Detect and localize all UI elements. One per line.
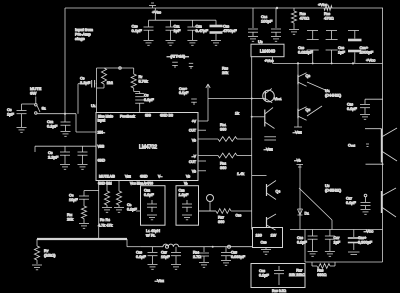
capacitor C7	[78, 146, 88, 164]
svg-text:4.7k 47k: 4.7k 47k	[98, 224, 112, 228]
svg-text:C26: C26	[136, 251, 142, 255]
capacitor C40	[191, 99, 197, 105]
label R3 R4	[98, 218, 112, 228]
wire feedback top	[97, 67, 134, 70]
label C25	[231, 251, 246, 259]
wire input line	[37, 114, 97, 132]
ground R down	[32, 265, 42, 270]
capacitor C6	[60, 146, 70, 164]
wire VBB line	[35, 146, 96, 152]
ground C10	[144, 41, 154, 46]
svg-text:(10kΩ): (10kΩ)	[44, 253, 56, 257]
label Cf	[144, 94, 154, 102]
label C18	[358, 236, 373, 244]
label U1 LM4702	[139, 145, 157, 151]
label U5 D45H8	[325, 184, 342, 192]
capacitor Cb small	[189, 63, 193, 69]
capacitor C26	[148, 247, 158, 264]
wire Q5 diagonal	[307, 106, 322, 116]
svg-text:–VCC: –VCC	[364, 229, 374, 234]
resistor R4	[116, 181, 121, 208]
wire C8 to switch	[22, 103, 35, 105]
capacitor C mute	[79, 196, 89, 206]
svg-text:VCC Bias A=700: VCC Bias A=700	[130, 182, 153, 186]
svg-text:C18+: C18+	[358, 236, 367, 240]
svg-text:1W: 1W	[271, 234, 277, 238]
box C22	[141, 186, 166, 226]
svg-text:360: 360	[218, 220, 224, 224]
svg-text:Vb: Vb	[184, 182, 188, 186]
capacitor C19	[307, 31, 319, 64]
svg-text:0.033µF: 0.033µF	[231, 255, 246, 259]
ground R24	[199, 263, 209, 268]
svg-text:1k2: 1k2	[107, 81, 113, 85]
svg-text:RM: RM	[67, 213, 73, 217]
svg-text:2.2µF: 2.2µF	[48, 155, 59, 160]
capacitor Ca small	[172, 62, 178, 68]
capacitor C18 electrolytic	[348, 230, 360, 255]
svg-text:U3: U3	[258, 39, 263, 44]
label -Vee under Q5	[293, 119, 302, 135]
resistor R mute	[81, 206, 86, 223]
resistor R 360 bottom	[198, 209, 252, 214]
resistor Rf2	[131, 68, 136, 92]
svg-text:1µF: 1µF	[338, 50, 346, 55]
label S1	[42, 106, 47, 111]
svg-text:0.1µF: 0.1µF	[259, 273, 269, 277]
svg-text:SIG: SIG	[145, 114, 151, 118]
box -Vee decouple	[290, 230, 383, 263]
label Rf2	[139, 75, 148, 83]
capacitor C8	[17, 104, 27, 127]
wire bias lower vertical	[299, 164, 301, 229]
node output jacks	[166, 245, 231, 248]
svg-text:(D45H11): (D45H11)	[325, 188, 342, 192]
svg-text:1k: 1k	[235, 112, 239, 116]
ground C8	[17, 128, 27, 133]
svg-text:0.1µF: 0.1µF	[144, 193, 154, 197]
label -Vcc box	[364, 229, 374, 234]
capacitor C11	[166, 20, 176, 40]
svg-text:0.1µF: 0.1µF	[132, 28, 143, 33]
svg-text:0.022µF: 0.022µF	[298, 50, 313, 55]
resistor R24	[199, 247, 209, 262]
svg-text:C28: C28	[259, 269, 265, 273]
svg-text:C5: C5	[144, 94, 149, 98]
label C14 C15 100pF	[261, 14, 273, 24]
svg-text:360: 360	[220, 166, 226, 170]
label Q7	[276, 190, 281, 194]
resistor R20 series	[324, 6, 332, 11]
transistor Q6	[265, 108, 275, 129]
svg-text:2.2pF: 2.2pF	[80, 80, 91, 85]
regulator U3 label	[258, 39, 263, 44]
transistor Q5	[298, 107, 307, 121]
svg-text:Cb: Cb	[127, 203, 132, 207]
svg-text:C23: C23	[179, 189, 185, 193]
svg-text:Q4: Q4	[276, 190, 281, 194]
svg-text:+VCC: +VCC	[265, 59, 275, 63]
wire Q3 emitter diagonal	[307, 82, 330, 92]
ground C11	[166, 41, 176, 46]
label C12a	[196, 24, 209, 34]
label R27	[296, 269, 305, 277]
label D1	[305, 212, 310, 216]
label L1	[146, 229, 160, 237]
ground R4	[114, 208, 124, 213]
svg-text:R25 0.5Ω: R25 0.5Ω	[272, 289, 286, 293]
label R24	[193, 251, 201, 259]
label C30	[297, 236, 307, 244]
svg-text:10µF: 10µF	[161, 255, 170, 259]
wire Q1 feed	[365, 128, 382, 130]
svg-text:C4: C4	[69, 194, 74, 198]
svg-text:Rb1: Rb1	[220, 123, 226, 127]
svg-text:2.7Ω: 2.7Ω	[193, 255, 201, 259]
ground C6	[60, 165, 70, 170]
svg-text:1µF: 1µF	[174, 28, 182, 33]
svg-text:SW: SW	[30, 91, 37, 96]
capacitor C bias	[127, 203, 141, 211]
capacitor C28	[259, 266, 284, 285]
label Rb1	[220, 123, 226, 131]
label C6	[48, 150, 59, 160]
capacitor C15	[271, 8, 281, 36]
svg-text:C16: C16	[297, 236, 303, 240]
svg-text:C30: C30	[236, 214, 242, 218]
svg-text:1000µF: 1000µF	[360, 50, 374, 55]
label input from preamp	[75, 27, 94, 41]
label -Vee Q6	[264, 148, 273, 152]
ground R mute	[79, 224, 89, 229]
svg-text:Vb: Vb	[186, 175, 190, 179]
label C26	[136, 251, 146, 259]
transistor Q2 output	[382, 188, 397, 217]
capacitor C14	[248, 8, 258, 36]
wire rail step	[127, 239, 141, 247]
ground C14	[248, 37, 258, 42]
svg-text:C22: C22	[144, 189, 150, 193]
svg-text:3,300µF: 3,300µF	[358, 240, 373, 244]
capacitor C9	[78, 80, 97, 88]
inductor L1	[141, 244, 252, 247]
svg-text:Input: Input	[98, 119, 106, 123]
capacitor C27	[171, 247, 181, 264]
svg-text:U5: U5	[325, 184, 330, 188]
svg-text:+VCC: +VCC	[318, 2, 328, 7]
svg-text:C27: C27	[161, 251, 167, 255]
node junction dots +V line	[297, 62, 354, 64]
switch mute jack	[207, 195, 214, 212]
wire to driver Q7	[252, 175, 267, 177]
transistor Q1 output	[382, 128, 398, 163]
label U1	[91, 103, 96, 108]
capacitor C12 input	[61, 114, 71, 131]
svg-text:470Ω: 470Ω	[324, 16, 334, 21]
wire out node right	[251, 98, 266, 100]
svg-text:w/ RL: w/ RL	[146, 233, 156, 237]
svg-text:U4: U4	[325, 89, 330, 93]
wire bias cap node	[365, 98, 383, 100]
svg-text:C17: C17	[334, 236, 340, 240]
label C27	[161, 251, 170, 259]
label C mute	[69, 194, 78, 202]
label R down	[44, 249, 56, 257]
wire supply sub-rail	[149, 8, 217, 20]
diode D1	[298, 209, 303, 215]
label R28	[317, 269, 326, 277]
label C20	[338, 45, 346, 55]
transistor Vbe multiplier	[263, 89, 275, 103]
svg-text:D1: D1	[305, 212, 310, 216]
svg-text:–Vb: –Vb	[295, 159, 302, 163]
svg-text:VEE: VEE	[125, 175, 131, 179]
ground top stub	[149, 3, 156, 8]
label R bottom	[218, 214, 242, 224]
svg-text:LM4702: LM4702	[139, 145, 157, 151]
svg-text:+VCC: +VCC	[366, 58, 376, 63]
switch S1	[35, 104, 40, 115]
wire Q3-Q5	[297, 85, 299, 108]
ground C31	[325, 252, 335, 257]
svg-text:L1 40µH: L1 40µH	[146, 229, 160, 233]
node junction S1-frame	[64, 113, 66, 115]
label U4 D44H11	[325, 89, 342, 97]
node +Vcc label top middle	[152, 10, 161, 15]
label Rb2	[220, 162, 226, 170]
box C28	[251, 264, 305, 288]
svg-text:22kΩ: 22kΩ	[296, 273, 305, 277]
svg-text:–V: –V	[192, 155, 197, 159]
svg-text:0.1µF: 0.1µF	[136, 255, 146, 259]
svg-text:GND: GND	[140, 175, 148, 179]
svg-text:180: 180	[256, 234, 262, 238]
svg-text:1µF: 1µF	[7, 112, 15, 117]
svg-text:22k: 22k	[289, 273, 295, 277]
svg-text:1.0µF: 1.0µF	[179, 193, 189, 197]
ground zobel	[261, 248, 271, 255]
label 1k mid	[235, 112, 239, 116]
svg-text:0.1µF: 0.1µF	[346, 201, 356, 205]
wire mute drop	[35, 97, 37, 104]
wire Q1 emitter line	[366, 163, 384, 165]
pin labels U1 left	[98, 119, 106, 163]
svg-text:OUT: OUT	[189, 160, 196, 164]
svg-text:stage: stage	[75, 36, 86, 41]
label below U1	[98, 182, 188, 186]
svg-text:360: 360	[220, 127, 226, 131]
capacitor C16	[360, 99, 370, 114]
svg-text:0.1µF: 0.1µF	[179, 91, 189, 95]
svg-text:LM4040: LM4040	[260, 49, 276, 54]
svg-text:Feedback: Feedback	[120, 115, 135, 119]
wire OUT A up	[198, 84, 252, 121]
ground R3	[102, 208, 112, 213]
wire +Vcc top rail	[65, 7, 383, 9]
resistor R3	[104, 181, 109, 208]
svg-text:OUT: OUT	[189, 129, 196, 133]
label C13	[223, 24, 237, 34]
svg-text:0.1µF: 0.1µF	[297, 240, 307, 244]
wire U1 bottom drop	[98, 181, 100, 240]
svg-text:–VEE: –VEE	[264, 148, 273, 152]
label C31 1uF	[334, 236, 341, 244]
svg-text:Cout: Cout	[348, 144, 355, 148]
svg-text:0.1µF: 0.1µF	[47, 124, 58, 129]
svg-text:–VEE: –VEE	[293, 131, 302, 135]
ground R19	[289, 30, 299, 35]
resistor Rb2	[198, 153, 252, 158]
svg-text:0.1µF: 0.1µF	[347, 107, 357, 111]
wire right rail vertical	[382, 8, 384, 262]
pin labels U1 right	[189, 120, 197, 174]
capacitor C20	[326, 31, 338, 64]
resistor R27 R28	[312, 262, 335, 268]
svg-text:R27: R27	[296, 269, 302, 273]
svg-text:GND BS: GND BS	[160, 114, 174, 118]
svg-text:VBB: VBB	[98, 145, 106, 149]
label R20	[324, 11, 334, 21]
ground C29	[361, 210, 371, 215]
svg-text:(D44H11): (D44H11)	[325, 93, 342, 97]
svg-text:Q5: Q5	[306, 108, 311, 112]
label Q3	[306, 74, 311, 78]
box C23	[176, 186, 199, 226]
ground C27	[171, 265, 181, 270]
label C10	[132, 24, 143, 34]
wire pin stubs right	[198, 130, 206, 171]
label R19	[300, 11, 310, 21]
label Rf1	[107, 81, 113, 85]
svg-text:470Ω: 470Ω	[300, 16, 310, 21]
svg-text:R3 R4: R3 R4	[100, 218, 110, 222]
capacitor C10	[144, 20, 154, 40]
wire -Vee thick rail	[37, 238, 127, 240]
svg-text:R18: R18	[222, 67, 228, 71]
label -Vb node	[295, 159, 304, 168]
svg-text:C16: C16	[347, 103, 353, 107]
wire to driver Q6	[251, 116, 265, 118]
label C16	[347, 103, 357, 111]
ground C30	[308, 252, 318, 257]
svg-text:0.1µF: 0.1µF	[127, 207, 137, 211]
svg-text:0.1µF: 0.1µF	[144, 98, 154, 102]
resistor R19	[291, 8, 296, 29]
svg-text:+V: +V	[192, 120, 197, 124]
label R mute	[67, 213, 73, 221]
svg-text:10µF: 10µF	[69, 198, 78, 202]
label R25 under box	[272, 289, 286, 293]
wire cap top bus	[307, 30, 359, 32]
svg-text:+Vcc: +Vcc	[152, 10, 161, 15]
pin labels U1 top row	[98, 114, 174, 119]
wire C23 to mute sw	[199, 210, 217, 212]
node junction dot	[276, 7, 278, 9]
svg-text:C25: C25	[231, 251, 237, 255]
ground C15	[271, 37, 281, 42]
resistor Rf1	[97, 68, 107, 88]
svg-text:4700µF: 4700µF	[223, 28, 237, 33]
capacitor C25	[221, 247, 231, 260]
regulator U3 box	[251, 44, 284, 57]
transistor Q3	[298, 73, 307, 87]
wire Q3 collector	[297, 63, 299, 74]
capacitor Cf	[134, 92, 145, 113]
label MUTE	[30, 86, 42, 96]
label C40	[179, 87, 189, 95]
capacitor C29 bias lower	[361, 194, 371, 209]
label C19	[298, 45, 313, 55]
wire long vertical bus	[251, 57, 253, 230]
label R18	[222, 67, 228, 75]
ground C26	[148, 265, 158, 270]
svg-text:Vb: Vb	[192, 139, 196, 143]
label C8	[7, 107, 15, 117]
svg-text:20k: 20k	[67, 217, 73, 221]
label 1.4k	[237, 172, 244, 176]
svg-text:RT: RT	[44, 249, 49, 253]
label C9	[80, 76, 91, 86]
svg-text:R24: R24	[193, 251, 199, 255]
capacitor C12a	[187, 20, 197, 40]
wire mute RC branch	[84, 191, 99, 197]
label +Vcc at U3	[265, 59, 275, 63]
label C12	[47, 119, 58, 129]
label -Vee bottom	[155, 278, 164, 283]
label 22k C28 box	[289, 273, 295, 277]
ground C25	[221, 261, 231, 266]
svg-text:20k: 20k	[222, 71, 228, 75]
svg-text:–VEE: –VEE	[155, 278, 164, 283]
ground C12a	[187, 41, 197, 46]
label C29	[346, 197, 356, 205]
svg-text:V–: V–	[158, 175, 162, 179]
capacitor C22	[144, 189, 157, 220]
node +Vcc label top right	[318, 2, 328, 7]
ground C13	[211, 41, 221, 46]
wire feedback drop	[78, 68, 97, 114]
resistor R down	[34, 239, 39, 264]
svg-text:1.4k: 1.4k	[237, 172, 244, 176]
svg-text:2IN–: 2IN–	[98, 131, 105, 135]
label C21	[360, 45, 374, 55]
transistor Q8	[267, 214, 277, 230]
svg-text:Rb2: Rb2	[220, 162, 226, 166]
capacitor C31	[325, 230, 335, 252]
svg-text:100pF: 100pF	[261, 19, 273, 24]
svg-text:R17: R17	[218, 216, 224, 220]
svg-text:0.47µF: 0.47µF	[196, 28, 209, 33]
ground C7	[78, 165, 88, 170]
svg-text:C17: C17	[346, 197, 352, 201]
wire left frame vertical	[64, 8, 66, 114]
capacitor C23	[179, 189, 193, 220]
svg-text:MUTE A/B: MUTE A/B	[99, 175, 116, 179]
svg-text:GND S/M: GND S/M	[98, 182, 112, 186]
label Vbe1	[274, 97, 282, 101]
svg-text:Rf: Rf	[139, 75, 143, 79]
svg-text:Vbe1: Vbe1	[274, 97, 282, 101]
resistor Rb1	[198, 137, 252, 142]
capacitor C13 electrolytic	[210, 20, 223, 40]
node junction dots caps	[312, 62, 333, 64]
label Q5	[306, 108, 311, 112]
ground C16	[360, 115, 370, 120]
pin labels U1 bottom	[99, 175, 190, 179]
op-amp U1 box	[96, 113, 198, 181]
svg-text:680Ω: 680Ω	[317, 273, 326, 277]
svg-text:U1: U1	[91, 103, 96, 108]
